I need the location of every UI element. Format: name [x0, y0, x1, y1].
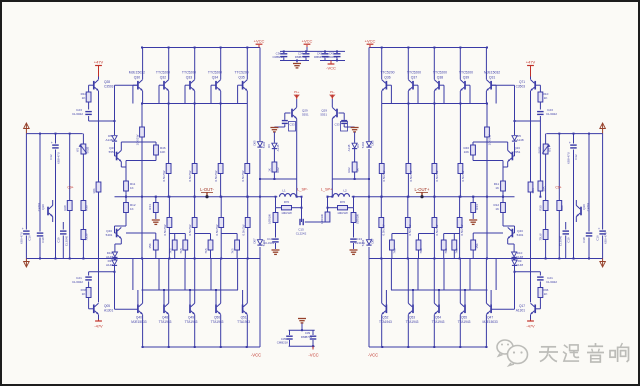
wire cap bank top bus	[280, 47, 345, 52]
svg-text:A148: A148	[276, 144, 280, 151]
wire column R	[407, 197, 409, 218]
diode D5 A148 L	[105, 134, 117, 152]
resistor R79 R	[351, 213, 359, 224]
resistor R46 10K L	[154, 145, 166, 155]
svg-text:Q31: Q31	[489, 76, 496, 80]
svg-text:TTA1943: TTA1943	[185, 320, 198, 324]
ground L	[272, 250, 280, 254]
resistor R45 15K R	[471, 233, 503, 259]
capacitor C33 L	[274, 113, 295, 131]
ground centre L	[270, 128, 278, 132]
wire R44 stub L	[155, 196, 157, 203]
svg-text:0.5K/5W: 0.5K/5W	[214, 170, 218, 181]
svg-text:R70: R70	[340, 200, 346, 204]
svg-text:0.5K/5W: 0.5K/5W	[241, 170, 245, 181]
wire column R	[486, 137, 488, 259]
diode D07 5404 R	[361, 238, 374, 246]
svg-text:MJE15032: MJE15032	[129, 71, 145, 75]
svg-text:Q05: Q05	[104, 304, 110, 308]
transistor Q37 (TTC5200)	[407, 48, 421, 104]
wire rail column R	[368, 48, 370, 348]
resistor 0.5K/5W L	[214, 164, 223, 182]
power symbol +VCC R	[365, 38, 376, 47]
svg-text:Q49: Q49	[188, 316, 194, 320]
svg-text:CL3040: CL3040	[559, 236, 563, 247]
power symbol P1 L	[294, 90, 300, 99]
svg-text:+VCC: +VCC	[254, 38, 265, 43]
svg-text:5404: 5404	[262, 141, 266, 148]
svg-text:C4793: C4793	[37, 202, 41, 211]
transistor Q40 (MJE15033)	[131, 259, 146, 348]
wire R44-gnd R	[472, 213, 474, 220]
wire column L	[247, 197, 249, 218]
wire column L	[247, 228, 249, 259]
wire emitter bus top L	[141, 103, 247, 105]
svg-text:10K: 10K	[531, 187, 535, 193]
wire driver to bank base bottom R	[492, 271, 516, 310]
svg-text:7K5: 7K5	[392, 248, 396, 254]
svg-text:C33: C33	[290, 123, 295, 127]
svg-text:R22: R22	[347, 167, 351, 173]
watermark wechat icon	[497, 340, 528, 366]
wire column R	[459, 228, 461, 259]
transistor Q38 (TTC5200)	[433, 48, 447, 104]
svg-text:L_SP+: L_SP+	[321, 187, 333, 191]
wire column L	[168, 104, 170, 164]
svg-text:7K5: 7K5	[419, 248, 423, 254]
svg-text:1K: 1K	[82, 292, 87, 296]
svg-text:D6: D6	[267, 144, 271, 148]
resistor R45 15K L	[126, 233, 158, 259]
resistor R12 1K L	[124, 203, 136, 213]
svg-text:R44: R44	[148, 204, 152, 210]
capacitor C34 DMB745	[295, 51, 310, 60]
svg-text:D05: D05	[371, 140, 375, 146]
svg-text:C16: C16	[596, 235, 600, 241]
svg-text:Q30: Q30	[134, 76, 141, 80]
capacitor C35 CMB21K	[277, 330, 293, 346]
wire L	[275, 196, 303, 198]
svg-text:-VCC: -VCC	[368, 353, 378, 358]
svg-text:Q54: Q54	[435, 316, 441, 320]
wire column R	[459, 174, 461, 198]
svg-text:CL3040: CL3040	[64, 236, 68, 247]
wire Q23 emitter R	[503, 161, 508, 182]
wire lower bus R	[369, 258, 603, 260]
transistor Q29 5551 R	[320, 99, 337, 179]
svg-text:10R/1W: 10R/1W	[320, 214, 324, 224]
svg-text:-VCC: -VCC	[308, 353, 318, 358]
svg-text:L1: L1	[282, 188, 286, 192]
svg-text:CL3101: CL3101	[355, 241, 366, 245]
svg-text:5551: 5551	[302, 113, 309, 117]
svg-text:+: +	[569, 141, 571, 145]
wire column L	[246, 174, 248, 198]
node input return L	[24, 259, 30, 268]
node input R	[600, 123, 606, 134]
svg-text:10R/1W: 10R/1W	[355, 214, 359, 224]
ground cap bank	[293, 61, 301, 68]
svg-text:TTA1943: TTA1943	[237, 320, 250, 324]
resistor 7K5 group R	[416, 234, 434, 259]
node input L	[24, 123, 30, 134]
wire column R	[407, 174, 409, 198]
svg-text:D07: D07	[253, 238, 257, 244]
svg-text:1K: 1K	[495, 207, 499, 211]
node L_SP L	[297, 187, 308, 191]
svg-text:Q71: Q71	[519, 80, 525, 84]
svg-text:0.5K/5W: 0.5K/5W	[188, 224, 192, 235]
resistor R17 L	[92, 182, 101, 194]
svg-text:C33: C33	[335, 123, 340, 127]
wire column L	[246, 104, 248, 164]
capacitor C12 R	[567, 134, 579, 259]
wire column L	[194, 104, 196, 164]
diode D9 A148 R	[512, 259, 523, 272]
svg-text:+: +	[51, 141, 53, 145]
wire column L	[220, 174, 222, 198]
svg-text:A1301: A1301	[516, 309, 525, 313]
wire column R	[459, 104, 461, 164]
svg-text:10R/1W: 10R/1W	[337, 211, 348, 215]
wire input col L	[69, 134, 71, 201]
svg-text:10K/1W: 10K/1W	[488, 134, 492, 145]
wire column L	[141, 137, 143, 259]
wire lower bus L	[26, 258, 260, 260]
svg-text:7K5: 7K5	[231, 248, 235, 254]
svg-text:-VCC: -VCC	[251, 353, 261, 358]
transistor Q50 (TTA1943)	[211, 259, 224, 348]
resistor R28 L	[63, 201, 72, 259]
resistor 7K5 group L	[195, 234, 213, 259]
capacitor C15 CL2242	[296, 219, 328, 236]
svg-text:0.5K/5W: 0.5K/5W	[241, 224, 245, 235]
wire bottom bank bottom bus	[289, 345, 315, 347]
wire L bus R	[332, 178, 370, 180]
svg-text:Q32: Q32	[160, 76, 167, 80]
power -VCC rail R	[369, 346, 488, 348]
wire column R	[381, 104, 383, 164]
svg-text:L2: L2	[343, 188, 347, 192]
node L-OUT+	[414, 187, 430, 198]
svg-text:KB6-47U: KB6-47U	[20, 232, 24, 244]
svg-text:W1: W1	[76, 147, 80, 152]
svg-text:CL3022: CL3022	[72, 112, 83, 116]
wire R11-R12 L	[125, 191, 127, 203]
resistor 7K5 group L	[221, 234, 239, 259]
resistor R12 1K R	[493, 203, 505, 213]
svg-text:0.5K/5W: 0.5K/5W	[409, 170, 413, 181]
wire Q43 emitter L	[115, 239, 121, 252]
node L-OUT-	[200, 187, 214, 198]
transistor Q05 A1301 L	[94, 303, 114, 319]
transistor Q29 5551 L	[292, 99, 309, 179]
svg-text:KB8-47U: KB8-47U	[567, 152, 571, 164]
diode D9 A148 L	[106, 259, 117, 272]
resistor R46 10K R	[463, 145, 475, 155]
wire R11-R12 R	[502, 191, 504, 203]
wire VAS emitter column L	[98, 91, 100, 302]
wire column R	[380, 197, 382, 218]
svg-text:0.5K/5W: 0.5K/5W	[461, 170, 465, 181]
svg-text:R28: R28	[63, 205, 67, 211]
svg-text:TTC5200: TTC5200	[459, 71, 473, 75]
svg-text:10K/1W: 10K/1W	[135, 134, 139, 145]
power symbol -VCC cap bank	[326, 61, 336, 71]
resistor 0.5K/5W R	[458, 164, 465, 182]
wire Q05 base chain R	[515, 272, 541, 309]
resistor 0.5K/5W R	[405, 218, 412, 236]
transistor Q05 A1301 R	[516, 303, 535, 319]
power symbol -VCC L	[251, 353, 261, 358]
resistor 0.5K/5W L	[188, 218, 197, 236]
svg-text:Q39: Q39	[463, 76, 470, 80]
svg-text:TTA1943: TTA1943	[211, 320, 224, 324]
wire column L	[220, 104, 222, 164]
diode D10 A148 R	[512, 251, 524, 259]
wire L bus L	[259, 178, 297, 180]
resistor R32 L	[81, 226, 88, 259]
svg-text:7K5: 7K5	[444, 248, 448, 254]
wire column L	[168, 174, 170, 198]
svg-text:KB6-47U: KB6-47U	[604, 232, 608, 244]
wire VAS emitter column R	[530, 91, 532, 302]
svg-text:C9+: C9+	[555, 186, 561, 190]
resistor 0.5K/5W L	[162, 164, 171, 182]
transistor Q54 (TTA1943)	[432, 259, 445, 348]
svg-text:TTC5200: TTC5200	[380, 71, 394, 75]
svg-text:Q38: Q38	[437, 76, 444, 80]
svg-text:C3503: C3503	[104, 85, 114, 89]
capacitor C16 R	[596, 134, 608, 259]
wire base chain R	[515, 85, 541, 135]
node C9+ L	[67, 186, 73, 190]
resistor R36 1K R	[538, 288, 549, 298]
svg-text:Q48: Q48	[162, 316, 168, 320]
wire column L	[220, 228, 222, 259]
svg-text:0.5K/5W: 0.5K/5W	[435, 224, 439, 235]
svg-text:TTC5200: TTC5200	[433, 71, 447, 75]
potentiometer W1 502B R	[537, 134, 551, 201]
wire L	[276, 179, 302, 222]
capacitor C39 DMB745	[301, 330, 316, 346]
svg-text:MJE15032: MJE15032	[484, 71, 500, 75]
svg-text:Q50: Q50	[214, 316, 220, 320]
wire driver to bank base R	[492, 85, 516, 122]
wire cap bank gnd bus	[280, 60, 309, 62]
capacitor C21 CL3022 R	[537, 276, 557, 284]
ground centre R	[351, 128, 359, 132]
capacitor C36 CMB21K	[273, 51, 288, 60]
wire column L	[168, 228, 170, 259]
resistor R44 R	[471, 203, 479, 213]
wire column R	[433, 174, 435, 198]
resistor R10 1K R	[538, 92, 549, 102]
svg-text:0.5K/5W: 0.5K/5W	[162, 170, 166, 181]
svg-text:5551: 5551	[514, 150, 521, 154]
svg-text:5401: 5401	[106, 233, 113, 237]
svg-text:A148: A148	[105, 138, 112, 142]
svg-text:DMB745: DMB745	[295, 55, 307, 59]
wire column R	[459, 197, 461, 218]
wire base bus bottom R	[391, 289, 488, 291]
wire column L	[194, 174, 196, 198]
resistor 0.5K/5W L	[215, 218, 224, 236]
resistor 7K5 group L	[168, 234, 187, 259]
svg-text:502B: 502B	[86, 147, 90, 154]
resistor R11 1K R	[494, 181, 506, 191]
transistor Q36 (TTC5200)	[380, 48, 394, 104]
svg-text:1K: 1K	[130, 207, 134, 211]
svg-text:Q53: Q53	[409, 316, 415, 320]
resistor R28 R	[557, 201, 564, 259]
svg-text:C12: C12	[574, 154, 578, 160]
ground bottom cap bank	[298, 319, 306, 331]
capacitor C19 CL3040 L	[57, 222, 69, 259]
svg-text:A148: A148	[347, 144, 351, 151]
svg-text:-47V: -47V	[526, 324, 535, 329]
capacitor C19 CL3040 R	[559, 222, 571, 259]
svg-text:R44: R44	[475, 204, 479, 210]
resistor R30 L	[81, 201, 88, 227]
svg-text:P1+: P1+	[294, 90, 300, 94]
svg-text:75LW: 75LW	[539, 233, 543, 241]
svg-text:MJE15033: MJE15033	[482, 320, 497, 324]
svg-text:0.5K/5W: 0.5K/5W	[382, 170, 386, 181]
resistor R70 10R/1W R	[327, 200, 354, 215]
transistor Q51 (TTA1943)	[237, 259, 250, 348]
inductor L1 R	[333, 188, 350, 196]
resistor 0.5K/5W R	[406, 164, 413, 182]
resistor R33 10K	[538, 121, 545, 198]
diode D10 A148 L	[106, 251, 118, 259]
svg-text:1K: 1K	[82, 96, 87, 100]
svg-text:5404: 5404	[361, 141, 365, 148]
wire Q05 base chain L	[89, 272, 115, 309]
svg-text:1K: 1K	[495, 186, 499, 190]
resistor 0.5K/5W R	[432, 164, 439, 182]
wire input col R	[558, 134, 560, 201]
svg-text:C18: C18	[41, 237, 45, 243]
svg-text:7K5: 7K5	[455, 248, 459, 254]
transistor Q43 5401 L	[106, 227, 122, 238]
svg-text:TTC5200: TTC5200	[407, 71, 421, 75]
wire column R	[433, 104, 435, 164]
wire input top bus R	[546, 133, 602, 135]
svg-text:TTC5200: TTC5200	[235, 71, 249, 75]
node L_SP R	[321, 187, 333, 191]
svg-text:-VCC: -VCC	[326, 66, 336, 71]
wire column L	[168, 197, 170, 218]
wire column R	[380, 228, 382, 259]
svg-text:10R/1W: 10R/1W	[268, 214, 272, 224]
svg-text:5401: 5401	[517, 233, 524, 237]
svg-text:R28: R28	[560, 205, 564, 211]
svg-text:-47V: -47V	[94, 324, 103, 329]
wire base chain L	[89, 85, 115, 135]
transistor Q20 C4793 R	[576, 200, 590, 222]
svg-text:0.5K/5W: 0.5K/5W	[460, 224, 464, 235]
power symbol +47V L	[94, 60, 104, 77]
resistor R36 1K L	[81, 288, 91, 298]
svg-text:Q17: Q17	[519, 304, 525, 308]
capacitor C16 L	[20, 134, 32, 259]
svg-text:TTC5200: TTC5200	[156, 71, 170, 75]
wire to Q43 L	[115, 213, 127, 234]
power -VCC rail L	[142, 346, 261, 348]
svg-text:10R/1W: 10R/1W	[281, 211, 292, 215]
svg-text:1K: 1K	[356, 168, 360, 172]
wire Q23 emitter L	[121, 161, 126, 182]
svg-text:A148: A148	[106, 263, 113, 267]
wire R46 bottom R	[473, 155, 503, 161]
svg-text:75LW: 75LW	[84, 233, 88, 241]
diode D05 5404 L	[253, 140, 266, 148]
svg-text:D05: D05	[253, 140, 257, 146]
ground R	[350, 250, 358, 254]
svg-text:+VCC: +VCC	[365, 38, 376, 43]
svg-text:5551: 5551	[320, 113, 327, 117]
power symbol +VCC centre	[302, 38, 313, 47]
resistor 0.5K/5W R	[457, 218, 464, 236]
svg-text:+47V: +47V	[526, 60, 536, 65]
svg-text:C19: C19	[57, 237, 61, 243]
svg-text:Q51: Q51	[241, 316, 247, 320]
svg-text:0.5K/5W: 0.5K/5W	[163, 224, 167, 235]
transistor Q32 (TTC5200)	[156, 48, 170, 104]
diode D6 A148 R	[347, 143, 360, 162]
svg-text:D6: D6	[356, 144, 360, 148]
svg-text:1K: 1K	[130, 186, 134, 190]
diode D6 A148 L	[267, 143, 280, 162]
power symbol +VCC L	[254, 38, 265, 47]
svg-text:TTC5200: TTC5200	[182, 71, 196, 75]
ground L	[152, 220, 160, 224]
svg-text:DB647K: DB647K	[314, 55, 325, 59]
svg-text:CL3022: CL3022	[546, 280, 557, 284]
wire R	[353, 223, 355, 238]
transistor Q28 (C3503) L	[94, 77, 114, 91]
svg-text:CMB21K: CMB21K	[277, 341, 289, 345]
svg-text:+: +	[598, 227, 600, 231]
wire output bus R	[352, 196, 515, 198]
svg-text:TTA1943: TTA1943	[458, 320, 471, 324]
resistor 0.5K/5W L	[163, 218, 172, 236]
wire L	[275, 208, 277, 213]
svg-text:CL3101: CL3101	[264, 241, 275, 245]
capacitor C23 CL3022 R	[537, 108, 557, 116]
capacitor C33 R	[335, 113, 355, 131]
svg-text:0.5K/5W: 0.5K/5W	[382, 224, 386, 235]
svg-text:7K5: 7K5	[204, 248, 208, 254]
transistor Q33 (TTC5200)	[182, 48, 196, 104]
svg-text:C4793: C4793	[586, 202, 590, 211]
svg-text:0.5K/5W: 0.5K/5W	[408, 224, 412, 235]
svg-text:10K: 10K	[464, 150, 469, 154]
diode D07 5404 L	[253, 238, 266, 246]
svg-text:Q34: Q34	[212, 76, 219, 80]
wire Q43 emitter R	[508, 239, 514, 252]
transistor Q35 (TTC5200)	[235, 48, 249, 104]
wire R	[328, 179, 354, 222]
svg-text:L_SP-: L_SP-	[297, 187, 308, 191]
svg-text:R22: R22	[276, 167, 280, 173]
svg-text:15K: 15K	[475, 243, 479, 248]
wire to Q43 R	[503, 213, 515, 234]
power symbol -47V R	[526, 320, 535, 329]
svg-text:L-OUT+: L-OUT+	[414, 187, 430, 192]
svg-text:C18: C18	[582, 237, 586, 243]
